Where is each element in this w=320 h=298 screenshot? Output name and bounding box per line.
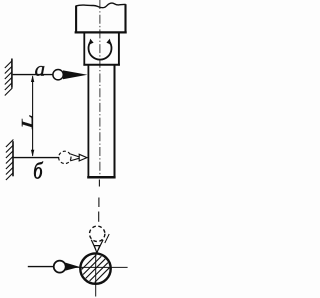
indicator upper position (dashed circle) [90, 226, 105, 241]
label b [34, 162, 43, 179]
contact cone filled tip [94, 246, 100, 253]
vertical centerline of shaft section [95, 254, 97, 297]
indicator a contact cone [63, 70, 87, 79]
indicator a stem [13, 74, 53, 76]
workpiece bar [87, 65, 115, 178]
dimension line L [32, 76, 34, 156]
rotation arrowhead left [89, 39, 94, 46]
side indicator contact cone [65, 263, 79, 271]
section view: vertical centerline above shaft [98, 180, 101, 222]
upper wall hatching [5, 61, 13, 96]
indicator a body circle [53, 70, 63, 80]
side indicator body circle [54, 261, 66, 273]
section hatching [82, 255, 110, 283]
lower fixed support wall [12, 141, 14, 176]
rotation arrowhead right [106, 39, 111, 46]
vertical centerline of spindle and bar [99, 0, 101, 177]
rotation arrow (both directions) inside nose block [89, 41, 112, 60]
upper fixed support wall [11, 59, 13, 88]
spindle housing (wide block, broken top edge) [75, 3, 127, 33]
indicator b tip arrow [79, 154, 87, 161]
dimension arrow up [31, 75, 34, 82]
horizontal centerline of shaft section [74, 266, 128, 268]
indicator b stem [14, 157, 60, 159]
label L (rotated) [22, 115, 32, 129]
indicator b cone outline [70, 154, 79, 161]
dimension arrow down [31, 150, 34, 157]
shaft cross-section circle [80, 253, 110, 283]
contact cone V outline [91, 240, 103, 250]
label a [35, 66, 44, 76]
spindle nose block [83, 33, 120, 66]
stray diagonal tick [105, 234, 109, 243]
lower wall hatching [6, 140, 13, 181]
side indicator stem [28, 266, 54, 268]
indicator b body (dashed circle) [59, 151, 71, 163]
